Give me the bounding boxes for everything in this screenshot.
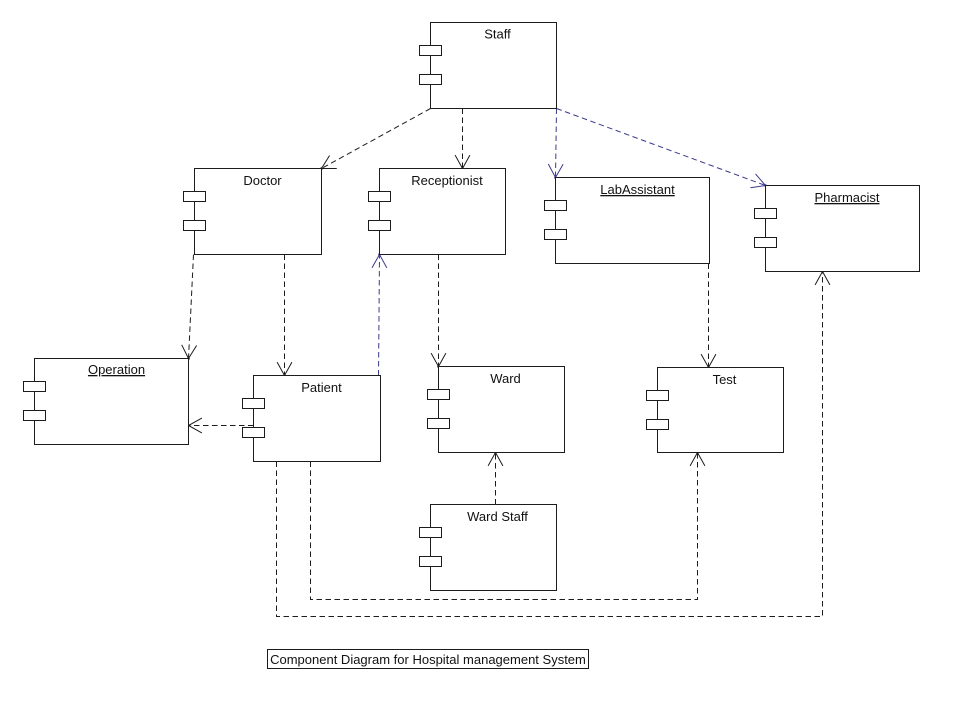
component Patient bbox=[243, 376, 381, 462]
svg-text:LabAssistant: LabAssistant bbox=[600, 182, 675, 197]
wire Doctor to Operation (dashed dependency) bbox=[182, 255, 197, 360]
wire Patient to Receptionist (blue dashed dependency) bbox=[372, 253, 387, 375]
wire Staff to Pharmacist (blue dashed dependency) bbox=[557, 109, 767, 188]
component Staff bbox=[420, 23, 557, 109]
svg-text:Patient: Patient bbox=[301, 380, 342, 395]
wire LabAssistant to Test (dashed dependency) bbox=[701, 264, 716, 369]
component Test bbox=[647, 368, 784, 453]
wire Patient to Operation (dashed dependency) bbox=[187, 418, 253, 433]
svg-text:Ward: Ward bbox=[490, 371, 521, 386]
wire Doctor to Patient (dashed dependency) bbox=[277, 255, 292, 377]
component Doctor bbox=[184, 169, 322, 255]
wire Staff to Receptionist (dashed dependency) bbox=[455, 109, 470, 170]
svg-text:Receptionist: Receptionist bbox=[411, 173, 483, 188]
wire Receptionist to Ward (dashed dependency) bbox=[431, 255, 446, 368]
component Pharmacist bbox=[755, 186, 920, 272]
svg-text:Test: Test bbox=[713, 372, 737, 387]
component Receptionist bbox=[369, 169, 506, 255]
wire Staff to Doctor (dashed dependency) bbox=[320, 109, 430, 170]
component Ward Staff bbox=[420, 505, 557, 591]
wire Patient to Test (routed dashed dependency) bbox=[311, 451, 705, 599]
component Operation bbox=[24, 359, 189, 445]
wire Patient to Pharmacist (routed dashed dependency) bbox=[277, 270, 830, 616]
svg-text:Doctor: Doctor bbox=[243, 173, 282, 188]
svg-text:Component Diagram for Hospital: Component Diagram for Hospital managemen… bbox=[270, 652, 586, 667]
caption box Component Diagram for Hospital management System bbox=[268, 650, 589, 669]
component LabAssistant bbox=[545, 178, 710, 264]
wire Ward Staff to Ward (dashed dependency) bbox=[488, 451, 503, 504]
component Ward bbox=[428, 367, 565, 453]
svg-text:Operation: Operation bbox=[88, 362, 145, 377]
svg-text:Ward Staff: Ward Staff bbox=[467, 509, 528, 524]
wire Staff to LabAssistant (blue dashed dependency) bbox=[548, 109, 563, 179]
svg-text:Staff: Staff bbox=[484, 27, 511, 42]
svg-text:Pharmacist: Pharmacist bbox=[814, 190, 879, 205]
